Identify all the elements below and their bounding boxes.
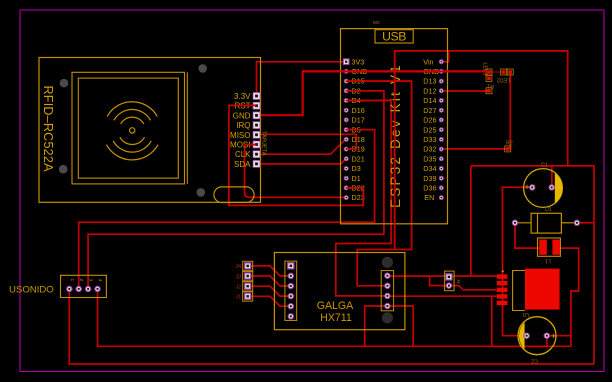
wire overlay MOSI stub (245, 144, 257, 146)
RFID antenna arcs symbol (106, 102, 158, 160)
svg-text:Vin: Vin (423, 57, 433, 66)
wire power rail right side (471, 166, 594, 364)
svg-text:L1: L1 (545, 258, 551, 264)
svg-text:D14: D14 (423, 96, 436, 105)
wire branch to C2 right pad (492, 296, 547, 346)
connector J4 (236, 261, 253, 270)
capacitor C2 (518, 317, 556, 364)
wire USONIDO pin1 bottom loop (69, 289, 594, 364)
svg-text:+: + (551, 331, 556, 341)
svg-text:3V3: 3V3 (352, 57, 365, 66)
wire MISO to D19 (257, 134, 357, 149)
wire D1 cathode to rail (577, 222, 594, 224)
svg-text:R2: R2 (506, 141, 513, 147)
wire C1 left pad to U1 column to C2 left pad (503, 187, 534, 336)
svg-text:C2: C2 (531, 358, 538, 364)
diode D1 (512, 207, 579, 233)
HX711 mounting holes (382, 257, 393, 324)
module GALGA HX711 outline (274, 253, 405, 330)
wire J1 to HX711 (248, 296, 291, 306)
svg-text:D26: D26 (423, 116, 436, 125)
wire branch down to J1 (470, 166, 472, 277)
svg-text:D33: D33 (423, 135, 436, 144)
svg-text:J4: J4 (236, 264, 242, 270)
svg-text:J2: J2 (236, 285, 242, 291)
connector J2 (236, 282, 253, 291)
wire MOSI to D23 (245, 145, 347, 198)
svg-text:D34: D34 (423, 164, 436, 173)
svg-text:J3: J3 (236, 274, 242, 280)
wire branch up to HX711 right pad4 (365, 306, 388, 346)
HX711 left pin strip (285, 261, 297, 320)
RFID pads 3.3V..SDA (253, 93, 260, 168)
wire D15 to HX711 right pad2 (346, 81, 411, 286)
wire Vin stub (441, 51, 448, 62)
svg-text:MC: MC (373, 20, 381, 25)
svg-text:D32: D32 (423, 145, 436, 154)
svg-text:HX711: HX711 (320, 312, 352, 324)
RFID antenna square (72, 72, 187, 184)
GALGA HX711 text (317, 300, 354, 324)
svg-text:LED1: LED1 (481, 63, 487, 76)
USONIDO label (9, 285, 54, 296)
ESP32 right pads Vin..EN (439, 60, 443, 200)
svg-text:3.3V: 3.3V (234, 92, 251, 101)
wire J1 pin2 to U1 pin3 (430, 277, 497, 290)
wire overlay D19 stub (346, 148, 356, 150)
wire SDA to D21 (257, 159, 347, 164)
wire HX711 pad3 to U1 pin4 (387, 295, 496, 297)
svg-text:U1: U1 (522, 311, 529, 317)
LED2 (497, 69, 513, 83)
MC label (373, 20, 381, 25)
wire HX711 pad4 right branch (387, 306, 413, 346)
svg-text:D3: D3 (352, 164, 361, 173)
svg-text:USONIDO: USONIDO (9, 285, 54, 296)
svg-text:4: 4 (97, 279, 103, 282)
svg-text:D1: D1 (352, 174, 361, 183)
ESP32 Dev Kit V1 value text (388, 63, 403, 208)
USB connector box (375, 30, 413, 44)
wire Vin top rail (395, 51, 568, 250)
ESP32 left pin labels (352, 57, 368, 202)
svg-text:D16: D16 (352, 106, 365, 115)
svg-text:R1: R1 (487, 82, 494, 88)
inductor L1 (538, 238, 561, 264)
regulator U1 (497, 269, 560, 317)
resistor R2 (505, 141, 513, 152)
TARJETA value text (260, 131, 266, 156)
wire HX711 pad to J1 to U1 pin1 (387, 275, 496, 277)
wire D4 to HX711 pad3 (336, 101, 391, 296)
svg-text:SDA: SDA (234, 160, 251, 169)
HX711 right pin strip (381, 271, 393, 311)
ESP32 left pads 3V3..D23 (343, 59, 349, 200)
svg-text:D17: D17 (352, 116, 365, 125)
svg-text:J1: J1 (456, 279, 461, 284)
wire USONIDO pin4 to HX711 (98, 289, 571, 346)
svg-text:GND: GND (233, 111, 251, 120)
svg-text:LED2: LED2 (497, 77, 510, 83)
svg-text:2: 2 (78, 279, 84, 282)
svg-text:D1: D1 (545, 207, 552, 213)
RFID bottom stadium cutout (214, 187, 254, 203)
svg-text:D18: D18 (352, 135, 365, 144)
svg-text:D12: D12 (423, 86, 436, 95)
wire J4 to HX711 (248, 266, 291, 276)
svg-text:3: 3 (88, 279, 94, 282)
wire LED1 to LED2 (489, 71, 504, 73)
ESP32 right pin labels (423, 57, 439, 202)
svg-text:TARJETA: TARJETA (260, 131, 266, 156)
svg-text:IRQ: IRQ (236, 121, 250, 130)
wire overlay D2 stub (346, 90, 384, 92)
wire overlay RST stub (229, 104, 257, 106)
wire D1 anode to L1 (515, 223, 539, 248)
svg-text:D21: D21 (352, 154, 365, 163)
svg-text:D27: D27 (423, 106, 436, 115)
connector J1 power (445, 271, 461, 291)
wire C2 right to L1 (547, 248, 579, 346)
svg-text:D13: D13 (423, 77, 436, 86)
svg-text:EN: EN (424, 193, 434, 202)
connector J1 single (236, 292, 253, 301)
wire overlay GND rail over labels (303, 70, 489, 72)
RFID-RC522A reference text (41, 86, 55, 173)
wire overlay D5 stub (346, 129, 374, 131)
wire D12 to R1 (441, 90, 489, 92)
svg-text:1: 1 (69, 279, 75, 282)
USONIDO pin number marks (69, 279, 103, 282)
wire overlay D15 stub (346, 80, 411, 82)
wire RST to D22 (229, 105, 363, 205)
svg-text:J1: J1 (236, 295, 242, 301)
LED1 (481, 63, 492, 82)
connector J3 (236, 271, 253, 280)
wire J2 to HX711 (248, 286, 291, 296)
wire D32 to R2 (441, 148, 508, 150)
svg-text:MISO: MISO (230, 131, 250, 140)
svg-text:GALGA: GALGA (317, 300, 354, 312)
svg-text:D25: D25 (423, 125, 436, 134)
svg-text:CLK: CLK (235, 150, 251, 159)
svg-text:D35: D35 (423, 154, 436, 163)
wire overlay D22 stub (346, 188, 363, 206)
svg-text:USB: USB (382, 30, 406, 44)
wire GND RFID to ESP32 to LED1 (257, 71, 490, 115)
RFID pin labels (230, 92, 251, 169)
module RFID-RC522A outline (39, 58, 261, 203)
wire overlay Vin rail over ESP32 text (394, 51, 396, 250)
resistor R1 (486, 82, 494, 94)
module U2 ESP32 Dev Kit V1 outline (341, 29, 448, 224)
wire branch to C1 right pad (551, 166, 553, 187)
svg-text:C1: C1 (541, 163, 548, 169)
wire D2 to USONIDO pin3 (88, 91, 384, 289)
wire J3 to HX711 (248, 276, 291, 286)
wire overlay D4 stub (346, 100, 391, 102)
capacitor C1 (524, 163, 563, 208)
RFID mounting holes (59, 64, 207, 197)
USONIDO connector (61, 275, 107, 297)
svg-text:D36: D36 (423, 184, 436, 193)
svg-text:D39: D39 (423, 174, 436, 183)
svg-text:RFID–RC522A: RFID–RC522A (41, 86, 55, 173)
svg-text:+: + (525, 182, 530, 192)
wire D5 to USONIDO pin2 (79, 130, 375, 289)
wire CLK to D18 (257, 140, 347, 154)
wire 3.3V RFID to ESP32 3V3 (257, 62, 347, 96)
wire LED2 to R2 (509, 72, 511, 149)
